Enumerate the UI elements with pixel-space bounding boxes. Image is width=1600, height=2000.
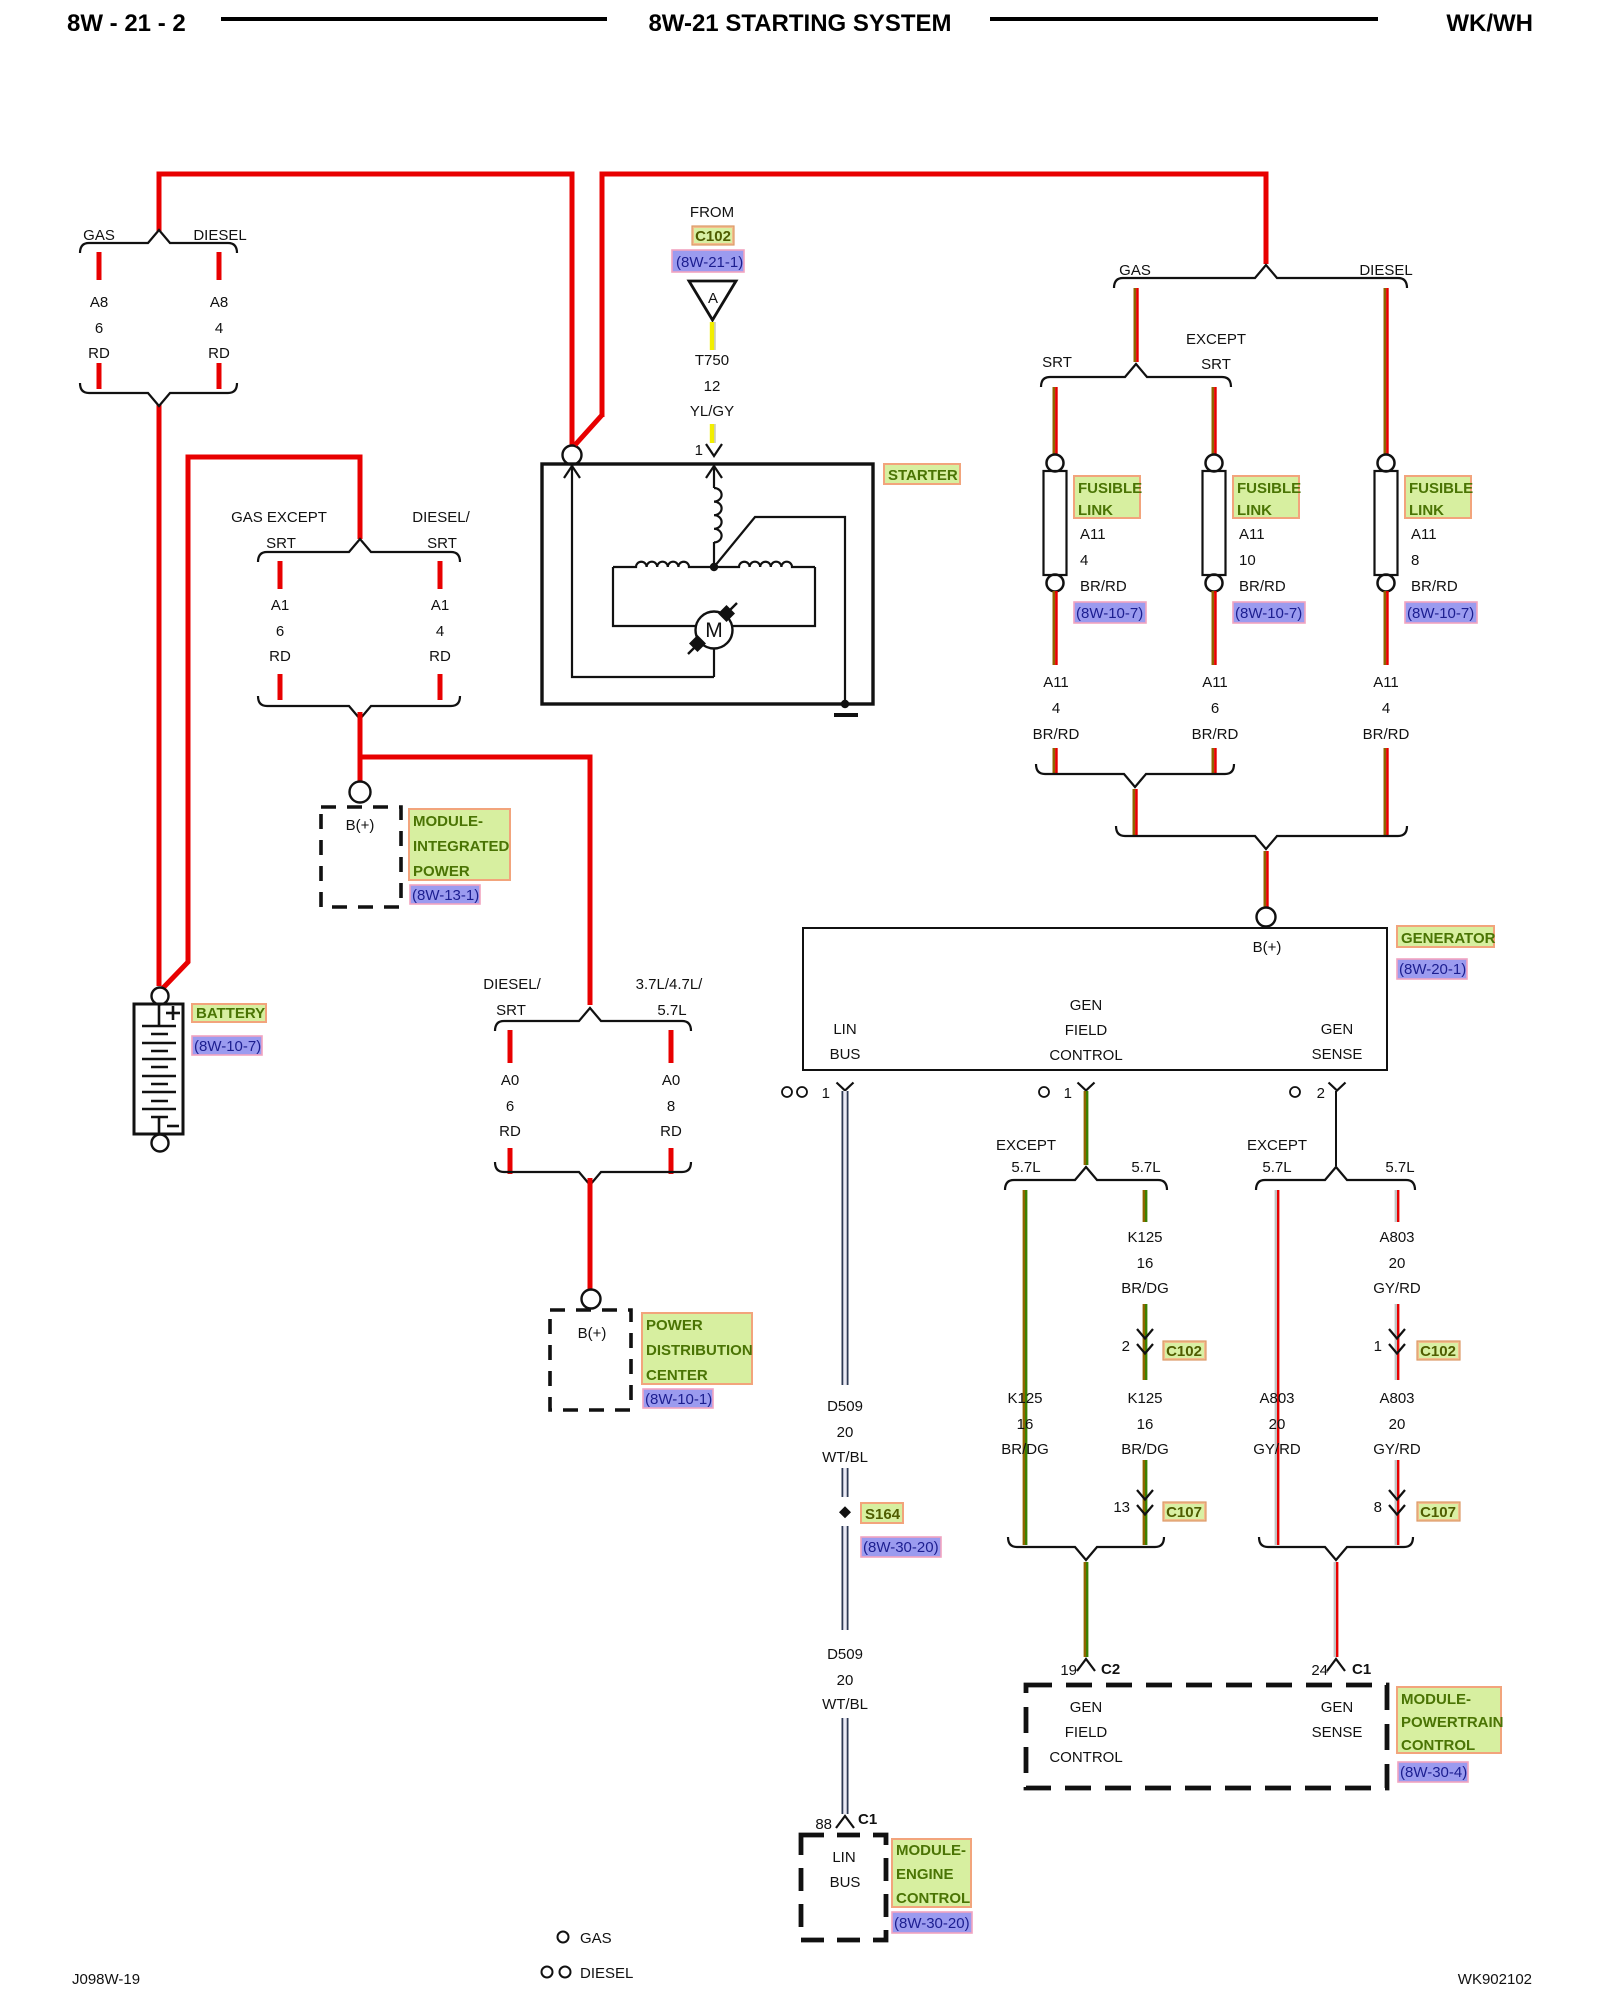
svg-text:C2: C2 (1101, 1661, 1120, 1678)
svg-text:M: M (705, 619, 723, 642)
svg-text:10: 10 (1239, 552, 1256, 569)
svg-text:6: 6 (1211, 700, 1219, 717)
svg-text:EXCEPT: EXCEPT (1186, 331, 1246, 348)
svg-text:FUSIBLE: FUSIBLE (1237, 480, 1301, 497)
wire K125 16 BR/DG 5.7L upper (1143, 1190, 1145, 1545)
svg-text:RD: RD (660, 1123, 682, 1140)
wire A8 feed from brace to starter (red) (159, 174, 572, 446)
svg-text:A803: A803 (1379, 1229, 1414, 1246)
page ref (8W-30-20) (892, 1912, 972, 1933)
off-page triangle A (689, 281, 736, 320)
svg-text:GY/RD: GY/RD (1253, 1441, 1301, 1458)
svg-text:SRT: SRT (427, 535, 457, 552)
motor to frame conductor (713, 648, 715, 677)
svg-text:C107: C107 (1166, 1504, 1202, 1521)
svg-text:RD: RD (429, 648, 451, 665)
svg-text:20: 20 (837, 1424, 854, 1441)
svg-text:POWERTRAIN: POWERTRAIN (1401, 1714, 1504, 1731)
page ref (8W-13-1) (410, 885, 480, 904)
svg-text:GAS: GAS (1119, 262, 1151, 279)
wire GEN SENSE pin lead (1335, 1091, 1337, 1166)
svg-text:A11: A11 (1373, 674, 1399, 691)
ground junction node (841, 700, 849, 708)
svg-text:8W-21 STARTING SYSTEM: 8W-21 STARTING SYSTEM (648, 10, 951, 37)
svg-text:(8W-30-4): (8W-30-4) (1400, 1764, 1467, 1781)
svg-text:8: 8 (667, 1098, 675, 1115)
svg-text:LINK: LINK (1237, 502, 1272, 519)
brace merge srt branches (1036, 764, 1234, 787)
field winding left coil (613, 562, 714, 567)
svg-text:FUSIBLE: FUSIBLE (1078, 480, 1142, 497)
svg-text:B(+): B(+) (578, 1325, 607, 1342)
svg-text:LINK: LINK (1409, 502, 1444, 519)
svg-text:C1: C1 (1352, 1661, 1371, 1678)
svg-text:GY/RD: GY/RD (1373, 1441, 1421, 1458)
page ref (8W-10-7) (1074, 602, 1146, 623)
svg-text:SRT: SRT (1042, 354, 1072, 371)
battery feed terminal circle on starter (563, 446, 582, 465)
fusible link F2 (1206, 455, 1223, 472)
battery negative terminal (152, 1135, 169, 1152)
svg-text:A8: A8 (90, 294, 108, 311)
svg-text:T750: T750 (695, 352, 729, 369)
svg-text:16: 16 (1017, 1416, 1034, 1433)
svg-text:POWER: POWER (413, 863, 470, 880)
svg-text:BR/DG: BR/DG (1121, 1280, 1169, 1297)
brace split A1 (258, 539, 460, 562)
svg-text:INTEGRATED: INTEGRATED (413, 838, 510, 855)
diesel markers at LIN BUS pin (782, 1087, 792, 1097)
wire LIN BUS D509 WT/BL (843, 1091, 846, 1814)
svg-text:A: A (708, 290, 718, 307)
wire gas branch BR/RD (1134, 288, 1137, 362)
svg-text:WT/BL: WT/BL (822, 1449, 868, 1466)
page ref (8W-30-20) (861, 1537, 941, 1557)
svg-text:DIESEL: DIESEL (193, 227, 246, 244)
brace merge gen sense branches (1259, 1537, 1413, 1560)
svg-text:(8W-30-20): (8W-30-20) (894, 1915, 970, 1932)
svg-text:6: 6 (506, 1098, 514, 1115)
svg-text:(8W-10-1): (8W-10-1) (645, 1391, 712, 1408)
svg-text:8: 8 (1411, 552, 1419, 569)
svg-text:C107: C107 (1420, 1504, 1456, 1521)
wire merged gen field BR/DG (1084, 1562, 1086, 1657)
wire A11 4 BR/RD below F3 (1384, 591, 1387, 835)
svg-text:A803: A803 (1259, 1390, 1294, 1407)
svg-text:WT/BL: WT/BL (822, 1696, 868, 1713)
svg-text:CONTROL: CONTROL (896, 1890, 970, 1907)
brace split gas/diesel charging feed (1114, 265, 1407, 288)
wire A11 6 BR/RD below F2 (1212, 591, 1215, 773)
svg-text:LIN: LIN (832, 1849, 855, 1866)
svg-text:J098W-19: J098W-19 (72, 1971, 140, 1988)
svg-text:1: 1 (695, 442, 703, 459)
starter box (542, 464, 873, 704)
svg-text:GEN: GEN (1321, 1021, 1354, 1038)
svg-text:GEN: GEN (1070, 1699, 1103, 1716)
svg-text:(8W-10-7): (8W-10-7) (1407, 605, 1474, 622)
svg-text:(8W-30-20): (8W-30-20) (863, 1539, 939, 1556)
svg-text:2: 2 (1122, 1338, 1130, 1355)
brace split gen sense (1256, 1167, 1415, 1190)
svg-text:A11: A11 (1080, 526, 1106, 543)
svg-text:DIESEL/: DIESEL/ (412, 509, 470, 526)
svg-text:WK902102: WK902102 (1458, 1971, 1532, 1988)
svg-text:(8W-10-7): (8W-10-7) (1235, 605, 1302, 622)
wire K125 16 BR/DG except-5.7L (1023, 1190, 1025, 1545)
svg-text:C1: C1 (858, 1811, 877, 1828)
fusible link F3 (1378, 455, 1395, 472)
svg-text:A8: A8 (210, 294, 228, 311)
svg-text:16: 16 (1137, 1416, 1154, 1433)
svg-text:RD: RD (88, 345, 110, 362)
svg-text:DIESEL/: DIESEL/ (483, 976, 541, 993)
wire A803 20 GY/RD except-5.7L (1275, 1190, 1277, 1545)
svg-text:8: 8 (1374, 1499, 1382, 1516)
svg-text:4: 4 (215, 320, 223, 337)
brace merge A8 wires (80, 383, 237, 406)
svg-text:SRT: SRT (1201, 356, 1231, 373)
svg-text:A1: A1 (271, 597, 289, 614)
label MODULE-ENGINE CONTROL (892, 1839, 971, 1907)
svg-text:K125: K125 (1007, 1390, 1042, 1407)
svg-text:EXCEPT: EXCEPT (996, 1137, 1056, 1154)
svg-text:(8W-21-1): (8W-21-1) (676, 254, 743, 271)
svg-text:A11: A11 (1411, 526, 1437, 543)
svg-text:BR/RD: BR/RD (1080, 578, 1127, 595)
splice S164 (839, 1506, 851, 1518)
svg-text:20: 20 (837, 1672, 854, 1689)
ground (834, 713, 858, 717)
wire A803 20 GY/RD 5.7L upper (1395, 1190, 1397, 1545)
svg-text:4: 4 (1382, 700, 1390, 717)
svg-text:C102: C102 (1420, 1343, 1456, 1360)
brush bottom-left (688, 640, 702, 654)
svg-text:5.7L: 5.7L (1011, 1159, 1040, 1176)
header rule left (221, 17, 607, 21)
wire merged gen sense GY/RD (1334, 1562, 1336, 1657)
label FUSIBLE LINK (1405, 476, 1471, 518)
battery positive terminal (152, 988, 169, 1005)
svg-text:A11: A11 (1043, 674, 1069, 691)
module-powertrain control box (1026, 1685, 1387, 1788)
svg-text:16: 16 (1137, 1255, 1154, 1272)
svg-text:MODULE-: MODULE- (896, 1842, 966, 1859)
wire A0 merge to PDC (red) (588, 1178, 593, 1289)
svg-text:5.7L: 5.7L (1385, 1159, 1414, 1176)
module-engine control box (801, 1835, 886, 1940)
wire battery to A1 splice feed (red) (163, 457, 360, 988)
wire A8 6 RD (gas) (97, 252, 102, 389)
svg-text:FUSIBLE: FUSIBLE (1409, 480, 1473, 497)
brace merge A0 wires (495, 1162, 691, 1185)
motor M1 (696, 612, 733, 649)
svg-text:B(+): B(+) (346, 817, 375, 834)
svg-text:BR/RD: BR/RD (1363, 726, 1410, 743)
fusible link F1 (1047, 455, 1064, 472)
gas marker at GEN FIELD pin (1039, 1087, 1049, 1097)
terminal circle generator B(+) (1257, 908, 1276, 927)
svg-text:BUS: BUS (830, 1874, 861, 1891)
generator box (803, 928, 1387, 1070)
svg-text:3.7L/4.7L/: 3.7L/4.7L/ (636, 976, 704, 993)
svg-text:BUS: BUS (830, 1046, 861, 1063)
svg-text:5.7L: 5.7L (1131, 1159, 1160, 1176)
svg-text:A0: A0 (662, 1072, 680, 1089)
svg-text:19: 19 (1060, 1662, 1077, 1679)
brush top-right (725, 603, 737, 615)
svg-text:A11: A11 (1202, 674, 1228, 691)
svg-text:A0: A0 (501, 1072, 519, 1089)
svg-text:(8W-20-1): (8W-20-1) (1399, 961, 1466, 978)
junction node (710, 563, 718, 571)
svg-text:GEN: GEN (1321, 1699, 1354, 1716)
svg-text:RD: RD (269, 648, 291, 665)
wire A1 4 RD (438, 561, 443, 700)
svg-text:6: 6 (276, 623, 284, 640)
page ref (8W-10-7) (1233, 602, 1305, 623)
svg-text:STARTER: STARTER (888, 467, 958, 484)
svg-text:SENSE: SENSE (1312, 1724, 1363, 1741)
brace merge generator feed (1116, 826, 1407, 849)
svg-text:K125: K125 (1127, 1229, 1162, 1246)
svg-text:1: 1 (822, 1085, 830, 1102)
svg-text:88: 88 (815, 1816, 832, 1833)
page ref (8W-10-1) (643, 1389, 713, 1408)
svg-text:DIESEL: DIESEL (580, 1965, 633, 1982)
svg-text:4: 4 (1080, 552, 1088, 569)
solenoid switch conductor to ground (714, 517, 845, 702)
svg-text:GY/RD: GY/RD (1373, 1280, 1421, 1297)
svg-text:20: 20 (1389, 1255, 1406, 1272)
svg-text:BATTERY: BATTERY (196, 1005, 265, 1022)
svg-text:S164: S164 (865, 1506, 901, 1523)
svg-text:POWER: POWER (646, 1317, 703, 1334)
svg-text:FIELD: FIELD (1065, 1022, 1108, 1039)
svg-text:CENTER: CENTER (646, 1367, 708, 1384)
page ref (8W-30-4) (1398, 1762, 1468, 1782)
page ref (8W-20-1) (1397, 959, 1467, 979)
label FUSIBLE LINK (1074, 476, 1140, 518)
power distribution center box (550, 1310, 631, 1410)
label MODULE-POWERTRAIN CONTROL (1397, 1687, 1501, 1753)
legend diesel marker (542, 1967, 553, 1978)
label BATTERY (192, 1004, 266, 1022)
wire merged gas BR/RD (1133, 789, 1136, 835)
gas marker at GEN SENSE pin (1290, 1087, 1300, 1097)
svg-text:GAS: GAS (83, 227, 115, 244)
module-integrated power box (321, 807, 401, 907)
terminal circle MIP B(+) (350, 782, 371, 803)
label S164 (861, 1503, 903, 1523)
svg-text:GEN: GEN (1070, 997, 1103, 1014)
brace merge A1 wires (258, 696, 460, 719)
connector label C102 (692, 226, 734, 245)
svg-text:RD: RD (499, 1123, 521, 1140)
svg-text:13: 13 (1113, 1499, 1130, 1516)
svg-text:20: 20 (1389, 1416, 1406, 1433)
svg-text:C102: C102 (695, 228, 731, 245)
starter internal solenoid conductor with arrow (713, 467, 715, 488)
wire T750 12 YL/GY (yellow) (710, 322, 714, 443)
terminal circle PDC B(+) (582, 1290, 601, 1309)
svg-text:24: 24 (1311, 1662, 1328, 1679)
svg-text:A803: A803 (1379, 1390, 1414, 1407)
svg-text:1: 1 (1064, 1085, 1072, 1102)
svg-text:C102: C102 (1166, 1343, 1202, 1360)
wire A1 6 RD (278, 561, 283, 700)
svg-text:CONTROL: CONTROL (1049, 1047, 1122, 1064)
brace split srt/except-srt (1041, 364, 1231, 387)
starter internal battery-feed conductor with arrow (572, 467, 714, 677)
svg-text:LINK: LINK (1078, 502, 1113, 519)
svg-text:BR/RD: BR/RD (1239, 578, 1286, 595)
svg-text:BR/DG: BR/DG (1001, 1441, 1049, 1458)
svg-text:2: 2 (1317, 1085, 1325, 1102)
solenoid coil (714, 488, 722, 542)
legend gas marker (558, 1932, 569, 1943)
svg-text:GAS: GAS (580, 1930, 612, 1947)
brace split A8 gas/diesel (80, 230, 237, 253)
svg-text:DIESEL: DIESEL (1359, 262, 1412, 279)
page ref (8W-10-7) (192, 1036, 262, 1055)
wire except-srt branch BR/RD (1212, 387, 1215, 455)
svg-text:BR/DG: BR/DG (1121, 1441, 1169, 1458)
svg-text:4: 4 (436, 623, 444, 640)
svg-text:FROM: FROM (690, 204, 734, 221)
wire diesel branch BR/RD (1384, 288, 1387, 455)
brace split A0 (495, 1008, 691, 1031)
wire A1 merge to module and PDC (red) (360, 712, 590, 1005)
brace split gen field (1005, 1167, 1167, 1190)
svg-text:RD: RD (208, 345, 230, 362)
svg-text:SENSE: SENSE (1312, 1046, 1363, 1063)
wire A8 4 RD (diesel) (217, 252, 222, 389)
field winding right coil (714, 562, 815, 567)
svg-text:8W - 21 - 2: 8W - 21 - 2 (67, 10, 186, 37)
label GENERATOR (1397, 926, 1494, 947)
wire A0 6 RD (508, 1030, 513, 1174)
svg-text:(8W-10-7): (8W-10-7) (1076, 605, 1143, 622)
svg-text:K125: K125 (1127, 1390, 1162, 1407)
page ref (8W-10-7) (1405, 602, 1477, 623)
svg-text:A1: A1 (431, 597, 449, 614)
wire GEN FIELD pin BR/DG (1084, 1091, 1086, 1165)
svg-text:YL/GY: YL/GY (690, 403, 734, 420)
page ref (8W-21-1) (672, 250, 744, 272)
header rule right (990, 17, 1378, 21)
svg-text:MODULE-: MODULE- (413, 813, 483, 830)
label POWER DISTRIBUTION CENTER (642, 1313, 752, 1384)
svg-text:GENERATOR: GENERATOR (1401, 930, 1496, 947)
svg-text:(8W-10-7): (8W-10-7) (194, 1038, 261, 1055)
svg-text:4: 4 (1052, 700, 1060, 717)
svg-text:CONTROL: CONTROL (1049, 1749, 1122, 1766)
svg-text:FIELD: FIELD (1065, 1724, 1108, 1741)
wire A0 8 RD (669, 1030, 674, 1174)
svg-text:CONTROL: CONTROL (1401, 1737, 1475, 1754)
svg-text:D509: D509 (827, 1646, 863, 1663)
label STARTER (884, 464, 960, 484)
svg-text:EXCEPT: EXCEPT (1247, 1137, 1307, 1154)
label FUSIBLE LINK (1233, 476, 1299, 518)
svg-text:SRT: SRT (266, 535, 296, 552)
svg-text:LIN: LIN (833, 1021, 856, 1038)
svg-text:BR/RD: BR/RD (1192, 726, 1239, 743)
svg-text:SRT: SRT (496, 1002, 526, 1019)
battery B1 (134, 1004, 183, 1134)
svg-text:WK/WH: WK/WH (1446, 10, 1533, 37)
svg-text:5.7L: 5.7L (1262, 1159, 1291, 1176)
svg-text:B(+): B(+) (1253, 939, 1282, 956)
svg-text:GAS EXCEPT: GAS EXCEPT (231, 509, 327, 526)
svg-text:MODULE-: MODULE- (1401, 1691, 1471, 1708)
svg-text:ENGINE: ENGINE (896, 1866, 954, 1883)
svg-text:A11: A11 (1239, 526, 1265, 543)
wire from C102 horizontal run into starter terminal (red) (575, 174, 1266, 445)
label MODULE-INTEGRATED POWER (409, 809, 510, 880)
svg-text:D509: D509 (827, 1398, 863, 1415)
svg-text:1: 1 (1374, 1338, 1382, 1355)
wire A8 merge to battery (red) (157, 404, 162, 986)
svg-text:(8W-13-1): (8W-13-1) (412, 887, 479, 904)
svg-text:12: 12 (704, 378, 721, 395)
field winding frame (613, 567, 815, 626)
svg-text:BR/RD: BR/RD (1033, 726, 1080, 743)
svg-text:5.7L: 5.7L (657, 1002, 686, 1019)
wire srt branch BR/RD (1053, 387, 1056, 455)
brace merge gen field branches (1008, 1537, 1164, 1560)
wire A11 4 BR/RD below F1 (1053, 591, 1056, 773)
svg-text:BR/RD: BR/RD (1411, 578, 1458, 595)
svg-text:6: 6 (95, 320, 103, 337)
wire merged B+ feed BR/RD (1264, 851, 1267, 908)
svg-text:DISTRIBUTION: DISTRIBUTION (646, 1342, 753, 1359)
svg-text:20: 20 (1269, 1416, 1286, 1433)
